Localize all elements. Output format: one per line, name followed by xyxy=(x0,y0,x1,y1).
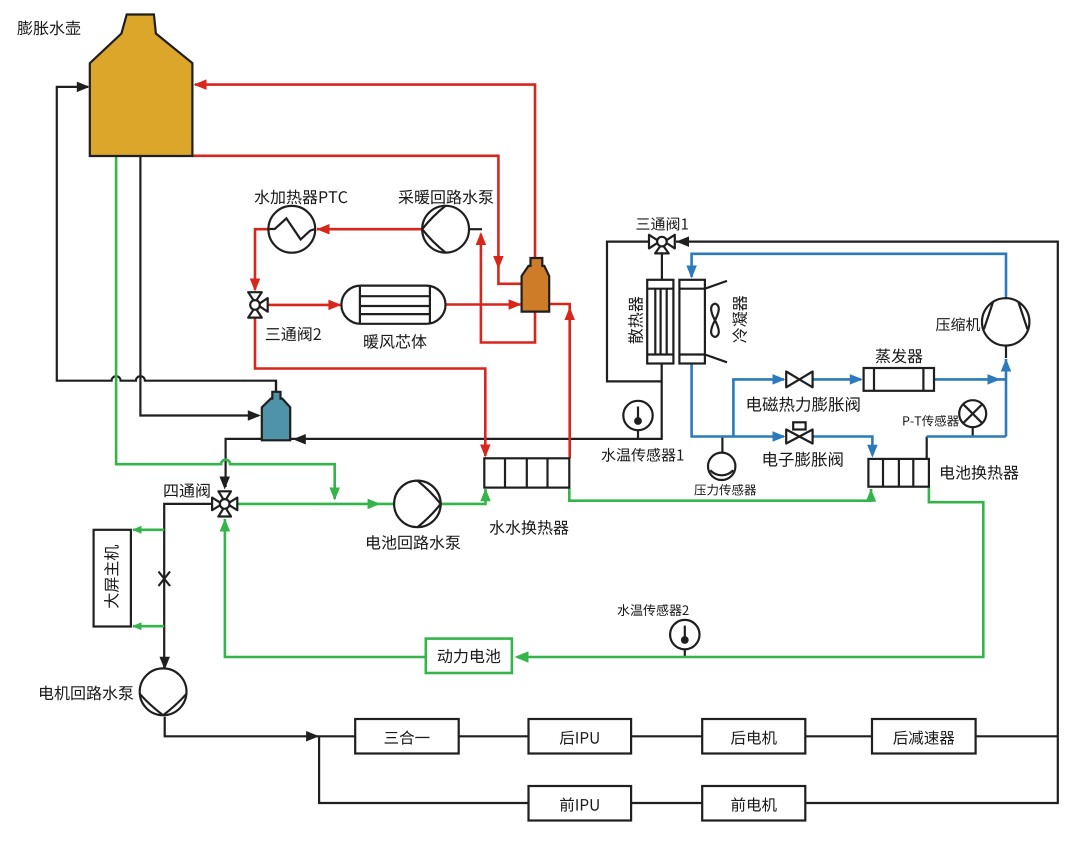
wire: green four-way valve right port to battery pump xyxy=(237,503,396,506)
wire: blue compressor discharge to condenser top xyxy=(692,254,1006,299)
wire: three-way valve 1 left lead and bypass box around radiator xyxy=(607,242,662,382)
label: solenoid thermal expansion valve xyxy=(748,397,860,412)
compressor xyxy=(982,298,1029,345)
heating circuit pump P1 xyxy=(422,206,469,253)
wire: blue evaporator outlet to compressor suction riser xyxy=(934,359,1006,437)
wire: battery heat exchanger top outlet stem xyxy=(926,437,928,459)
wire: rear reducer to right riser xyxy=(976,735,1058,737)
wire: water temp sensor 2 stem xyxy=(684,648,686,657)
battery heat exchanger xyxy=(868,459,929,487)
wire: expansion tank bottom black drain to small tank left port xyxy=(140,156,259,416)
label: motor circuit pump xyxy=(40,686,133,701)
wire: red three-way valve 2 right port to heater core xyxy=(264,304,342,307)
wire: blue condenser bottom to electronic expansion valve xyxy=(692,364,784,437)
label: P-T sensor xyxy=(903,415,959,427)
solenoid thermal expansion valve xyxy=(786,372,812,388)
wire: red orange bottle right to water-water HX top right riser xyxy=(549,304,570,458)
motor circuit pump P3 xyxy=(140,668,187,715)
label: power battery xyxy=(438,649,501,664)
wire: red from expansion tank bottom right to orange bottle left shoulder xyxy=(192,156,521,284)
wire: compressor bottom stem xyxy=(1005,344,1007,358)
wire: three-way valve 1 bottom stem to radiator top xyxy=(661,249,663,280)
label: rear motor xyxy=(731,730,777,744)
label: pressure sensor xyxy=(694,484,756,496)
condenser xyxy=(679,280,705,364)
label: three-way valve 2 xyxy=(266,327,321,342)
three-way valve 1 xyxy=(649,235,675,254)
wire: green stub into display host top xyxy=(133,528,164,531)
expansion tank (yellow) xyxy=(90,15,193,157)
wire: three-in-one to rear IPU xyxy=(459,735,529,737)
wire: rear IPU to rear motor xyxy=(631,735,702,737)
wire: red PTC heater outlet down to three-way valve 2 top xyxy=(255,229,268,290)
three-way valve 2 xyxy=(248,292,268,317)
label: water temp sensor 1 xyxy=(602,448,684,462)
wire: right riser from three-way valve 1 feed down to front motor return xyxy=(676,242,1058,803)
wire: expansion tank left return, down left side, over to small tank neck xyxy=(57,87,276,392)
label: expansion tank xyxy=(17,21,80,36)
wire: blue electronic expansion valve to battery heat exchanger top xyxy=(813,437,873,456)
wire: green stub into display host bottom xyxy=(133,625,164,628)
wire: radiator outlet down and left to small tank right port, under tank to four-way valve top xyxy=(226,364,662,488)
display host box xyxy=(94,530,131,627)
wire: blue battery HX outlet over to compressor suction riser xyxy=(927,435,1006,438)
three-in-one box xyxy=(355,719,459,754)
front IPU box xyxy=(529,786,632,821)
label: compressor xyxy=(936,317,980,331)
wire: heating pump right lead xyxy=(468,228,482,230)
label: heater core xyxy=(364,334,426,349)
electronic expansion valve xyxy=(786,422,812,443)
wire: motor pump outlet bottom loop to three-in-one and front IPU branch xyxy=(165,717,529,803)
label: rear reducer xyxy=(893,730,954,744)
wire: blue solenoid valve to evaporator xyxy=(813,378,861,381)
wire: red feed from small orange bottle top up and left into expansion tank right xyxy=(195,85,535,259)
wire: green expansion tank bottom down to long manifold and branch down to battery pump line xyxy=(116,156,335,499)
P-T sensor xyxy=(959,400,986,427)
four-way valve xyxy=(212,491,237,516)
wire: blue branch up to solenoid thermal expansion valve xyxy=(733,379,784,436)
front motor box xyxy=(702,786,805,821)
wire: rear motor to rear reducer xyxy=(805,735,872,737)
condenser fan shroud lines xyxy=(705,281,727,289)
wire: red orange bottle bottom drain to heating pump suction xyxy=(481,234,535,343)
label: front IPU xyxy=(560,797,599,811)
wire: front IPU to front motor xyxy=(631,802,702,804)
rear reducer box xyxy=(872,719,976,754)
wire: water temp sensor 1 stem xyxy=(637,428,639,439)
water-water heat exchanger xyxy=(484,458,569,487)
wire: green power battery outlet left and up to four-way valve bottom xyxy=(225,519,425,657)
label: electronic expansion valve xyxy=(764,452,843,467)
wire: green battery pump outlet up into water-water HX bottom left xyxy=(441,489,486,504)
rear motor box xyxy=(702,719,805,754)
PTC water heater U1 xyxy=(268,206,315,253)
label: three-way valve 1 xyxy=(636,217,687,231)
heater core xyxy=(341,286,445,324)
small orange bottle reservoir xyxy=(522,258,550,312)
label: battery circuit pump xyxy=(367,535,460,550)
small teal tank reservoir xyxy=(262,381,290,441)
wire: pressure sensor stem xyxy=(721,437,723,454)
water temp sensor 1 xyxy=(623,401,652,430)
label: condenser (rotated) xyxy=(732,296,747,343)
wire: P-T sensor stem xyxy=(972,426,974,437)
wire: green water-water HX bottom outlet to battery HX bottom left xyxy=(569,488,871,501)
label: evaporator xyxy=(876,348,923,363)
radiator xyxy=(647,280,673,364)
battery circuit pump P2 xyxy=(394,481,441,528)
power battery box (green) xyxy=(426,639,512,673)
evaporator xyxy=(864,368,934,391)
label: display host (rotated) xyxy=(104,545,119,608)
label: radiator (rotated) xyxy=(628,297,643,344)
wire: red three-way valve 2 bottom port to water-water HX top left xyxy=(255,318,485,456)
wire: green battery HX bottom outlet down and around to power battery xyxy=(517,487,983,657)
label: battery heat exchanger xyxy=(941,465,1019,480)
water temp sensor 2 xyxy=(670,620,699,649)
label: heating circuit pump xyxy=(399,190,494,205)
label: water temp sensor 2 xyxy=(618,604,689,616)
shutoff X valve on motor loop xyxy=(159,572,171,587)
rear IPU box xyxy=(529,719,632,754)
wire: red heating pump to PTC heater xyxy=(317,228,422,231)
label: water-water heat exchanger xyxy=(490,520,569,535)
wire: red heater core outlet to orange bottle left xyxy=(446,303,522,306)
label: four-way valve xyxy=(164,483,209,498)
label: three-in-one xyxy=(385,730,430,744)
label: front motor xyxy=(731,797,776,811)
pressure sensor xyxy=(708,453,735,480)
condenser fan propeller xyxy=(711,304,719,337)
label: PTC water heater xyxy=(255,190,348,205)
label: rear IPU xyxy=(560,731,599,745)
arrowheads on wires xyxy=(77,82,90,93)
wire: four-way valve left port to motor pump xyxy=(164,504,212,668)
